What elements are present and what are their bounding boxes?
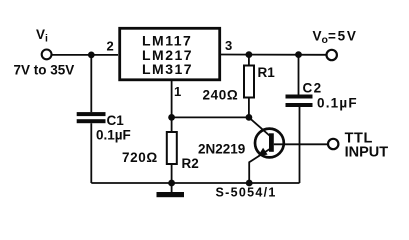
wire Vi to pin 2 bbox=[52, 54, 118, 56]
svg-text:S-5054/1: S-5054/1 bbox=[216, 186, 277, 200]
resistor R1 bbox=[248, 55, 250, 66]
svg-text:7V to 35V: 7V to 35V bbox=[14, 63, 75, 78]
node input junction bbox=[88, 52, 95, 59]
transistor Q1 collector wire bbox=[249, 117, 270, 136]
ground symbol bbox=[171, 183, 173, 192]
svg-text:0.1µF: 0.1µF bbox=[96, 128, 131, 143]
node R1 top junction bbox=[246, 51, 253, 58]
transistor Q1 base bar bbox=[269, 133, 274, 152]
svg-text:C2: C2 bbox=[303, 81, 323, 96]
regulator U1 box LM117/LM217/LM317 bbox=[120, 28, 220, 80]
svg-text:INPUT: INPUT bbox=[345, 145, 389, 161]
terminal Vi bbox=[42, 50, 52, 60]
svg-text:2: 2 bbox=[107, 39, 114, 54]
node emitter ground junction bbox=[246, 180, 253, 187]
resistor R2 bbox=[171, 117, 173, 132]
svg-text:C1: C1 bbox=[107, 113, 125, 128]
svg-text:1: 1 bbox=[174, 84, 181, 99]
bottom ground rail bbox=[91, 182, 299, 184]
wire C2 down to bottom rail bbox=[299, 107, 301, 183]
svg-text:720Ω: 720Ω bbox=[122, 150, 158, 165]
svg-text:R2: R2 bbox=[182, 156, 199, 171]
terminal Vo bbox=[327, 50, 337, 60]
node adj rail right junction bbox=[246, 114, 253, 121]
svg-text:LM317: LM317 bbox=[142, 61, 193, 77]
wire base to TTL terminal bbox=[274, 143, 328, 145]
wire adj rail horizontal bbox=[172, 116, 249, 118]
wire C1 down to ground rail bbox=[90, 123, 92, 183]
terminal TTL input bbox=[328, 139, 338, 149]
svg-text:240Ω: 240Ω bbox=[203, 88, 239, 103]
capacitor C2 bbox=[298, 55, 300, 95]
wire pin 1 down to adj rail bbox=[171, 81, 173, 118]
svg-text:R1: R1 bbox=[258, 65, 276, 80]
wire pin 3 to output terminal bbox=[221, 54, 326, 56]
svg-text:2N2219: 2N2219 bbox=[198, 142, 245, 157]
transistor Q1 2N2219 circle bbox=[255, 129, 284, 158]
svg-text:3: 3 bbox=[225, 38, 232, 53]
capacitor C1 bbox=[77, 112, 106, 116]
svg-text:0.1µF: 0.1µF bbox=[317, 96, 358, 111]
transistor Q1 emitter arrow bbox=[258, 148, 268, 156]
transistor Q1 emitter wire bbox=[249, 149, 270, 184]
node C2 top junction bbox=[295, 51, 302, 58]
node adj rail left junction bbox=[168, 114, 175, 121]
wire input junction down to C1 bbox=[90, 55, 92, 112]
node ground junction bbox=[168, 180, 175, 187]
